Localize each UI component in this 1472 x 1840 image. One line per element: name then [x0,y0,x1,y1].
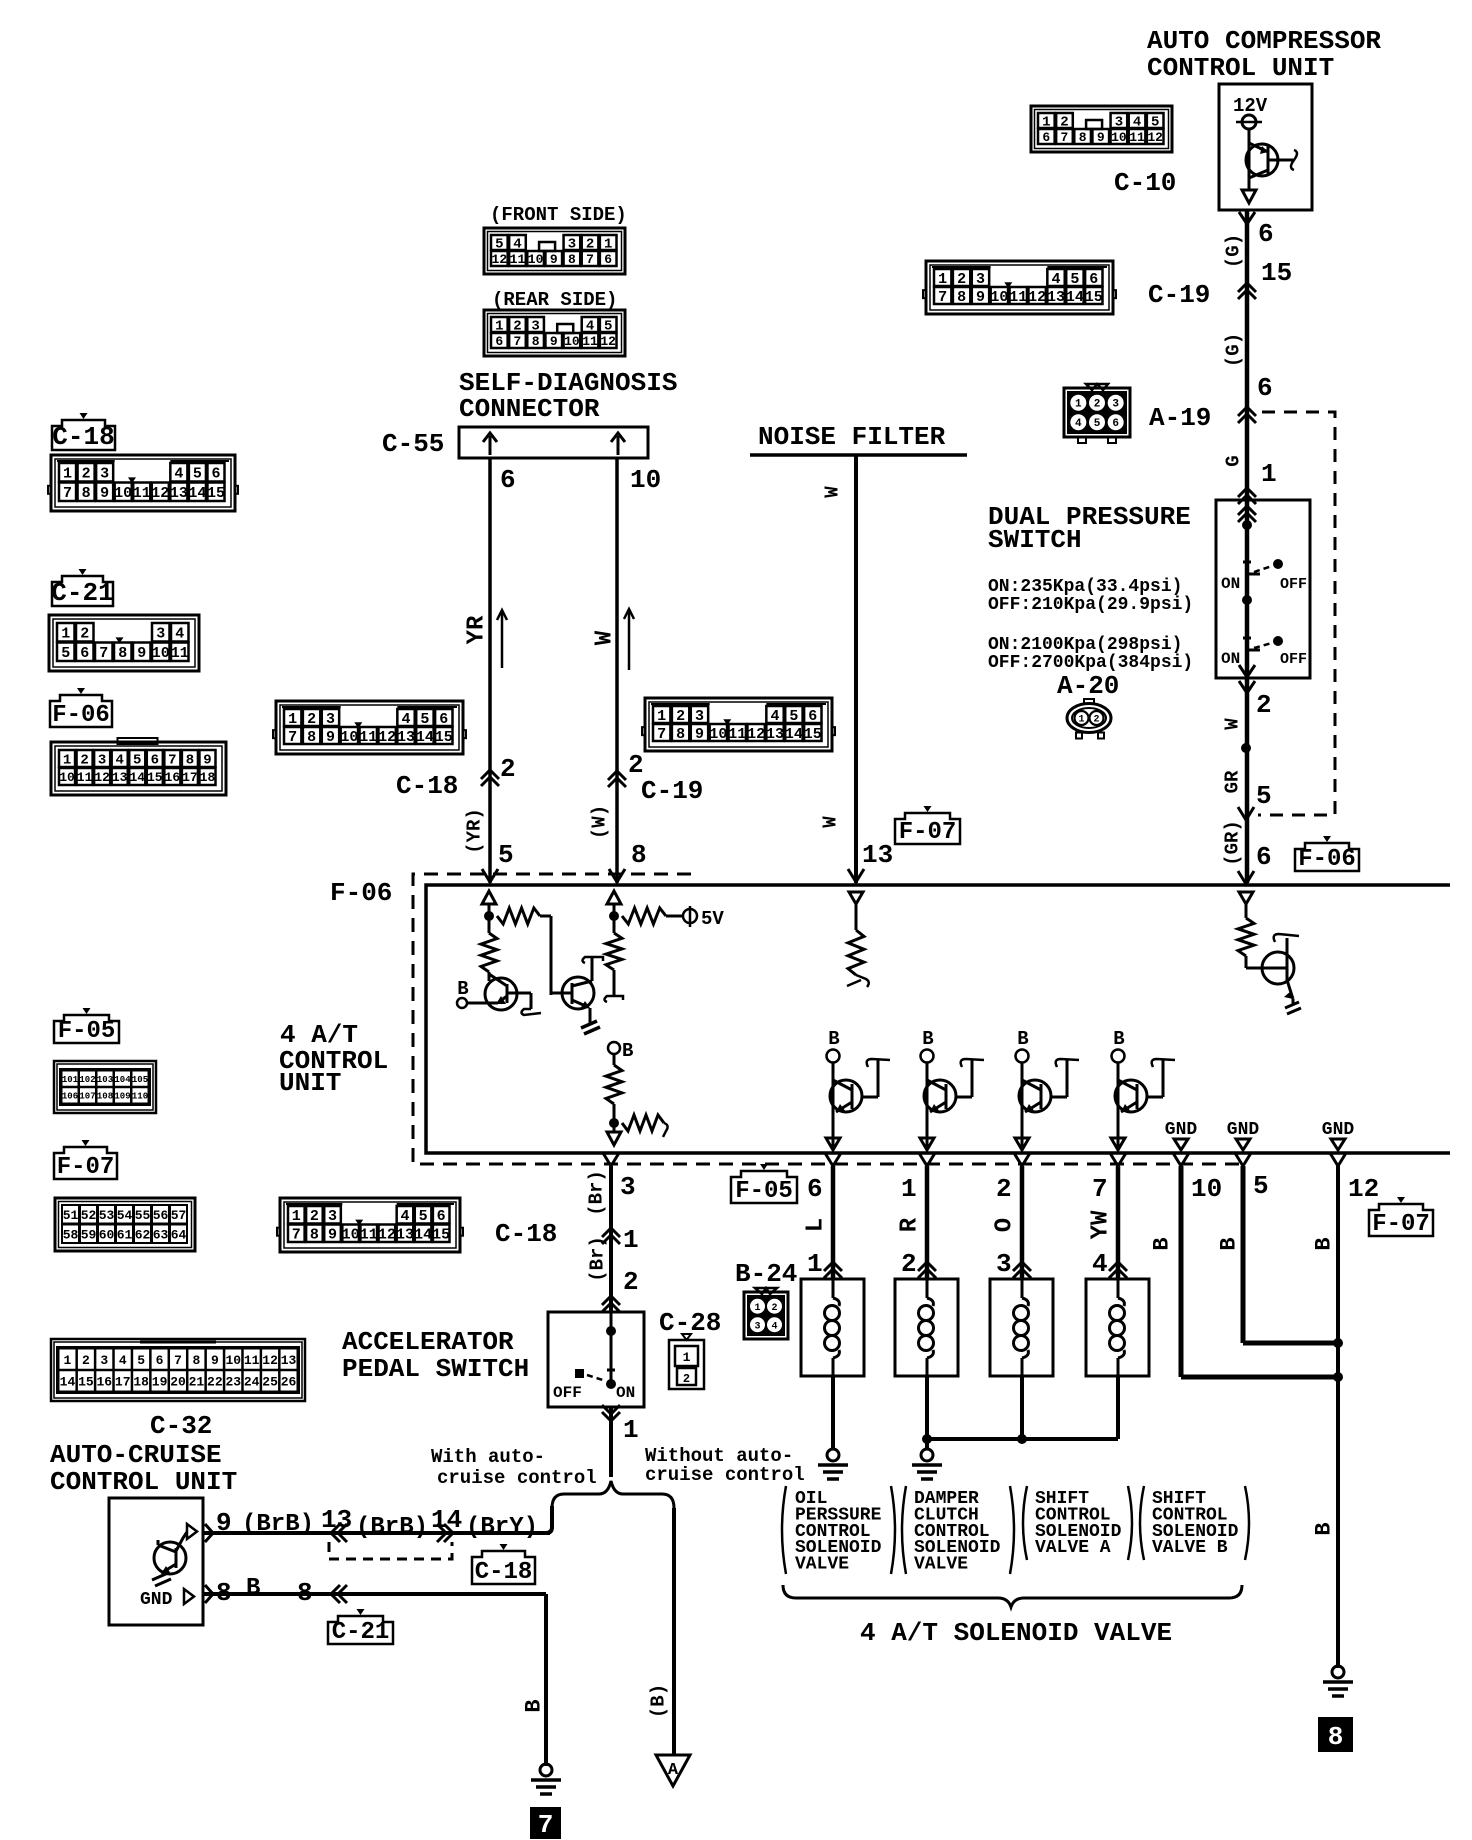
cruise port 1 [187,1524,197,1539]
svg-text:(W): (W) [589,805,611,839]
svg-text:ON:235Kpa(33.4psi): ON:235Kpa(33.4psi) [988,577,1182,597]
svg-text:10: 10 [1111,130,1127,145]
connector C-28 [669,1340,704,1389]
solenoid valve damper clutch [895,1279,958,1376]
svg-text:10: 10 [340,729,358,746]
svg-text:YW: YW [1087,1210,1114,1239]
svg-text:4: 4 [1052,271,1061,288]
svg-text:6: 6 [808,708,817,725]
svg-text:(GR): (GR) [1222,820,1244,866]
svg-text:102: 102 [79,1075,95,1085]
resistor R4 vert [606,933,622,970]
solenoid valve oil pressure [801,1279,864,1376]
svg-text:105: 105 [132,1075,148,1085]
svg-text:55: 55 [135,1208,151,1223]
crossing YW [1109,1262,1127,1271]
svg-text:GR: GR [1222,770,1244,793]
wire L down [831,1166,836,1279]
svg-text:12: 12 [94,770,110,785]
svg-text:12: 12 [492,252,508,267]
svg-text:8: 8 [1328,1722,1344,1752]
svg-text:12: 12 [262,1353,278,1368]
svg-text:10: 10 [630,465,661,495]
svg-text:GND: GND [1165,1120,1198,1140]
svg-text:10: 10 [342,1227,360,1244]
connector REAR SIDE [484,310,625,356]
svg-text:6: 6 [1089,271,1098,288]
wire O down [1020,1166,1025,1279]
svg-text:B: B [1017,1028,1028,1050]
svg-text:ON: ON [1221,575,1240,593]
svg-text:11: 11 [1009,289,1027,306]
svg-text:5: 5 [1253,1171,1269,1201]
svg-text:12: 12 [151,485,169,502]
svg-text:B: B [622,1040,633,1062]
svg-text:2: 2 [623,1267,639,1297]
svg-text:(BrY): (BrY) [466,1514,538,1541]
svg-text:W: W [822,486,844,498]
C-21 ref box cruise [328,1616,393,1644]
junction Y below box [1239,212,1255,224]
pedal switch box [548,1312,644,1407]
bus exit Y L [825,1153,841,1166]
chevron inside box top [1238,506,1256,515]
svg-text:109: 109 [114,1092,130,1102]
svg-text:4: 4 [771,1321,777,1332]
svg-text:A-19: A-19 [1149,403,1211,433]
svg-text:6: 6 [1258,219,1274,249]
svg-text:8: 8 [297,1578,313,1608]
svg-text:2: 2 [80,753,88,769]
svg-text:9: 9 [976,289,985,306]
svg-text:C-19: C-19 [641,776,703,806]
svg-text:B: B [1150,1237,1175,1250]
svg-text:OFF: OFF [553,1384,582,1402]
svg-text:5: 5 [133,753,141,769]
crossing 1 [602,1228,620,1237]
svg-text:B: B [1217,1237,1242,1250]
resistor R1 horiz [497,908,540,924]
svg-text:(B): (B) [648,1684,670,1718]
svg-text:A-20: A-20 [1057,671,1119,701]
svg-text:6: 6 [604,252,612,267]
svg-text:12: 12 [1147,130,1163,145]
transistor Q1 compressor [1246,144,1278,176]
solenoid join wire [927,1437,1118,1441]
svg-text:5: 5 [498,840,514,870]
svg-text:10: 10 [709,726,727,743]
svg-text:1: 1 [61,626,70,643]
svg-text:3: 3 [620,1172,636,1202]
svg-text:6: 6 [1042,130,1050,145]
svg-text:YR: YR [463,615,490,644]
bus entry Y GR [1238,871,1254,884]
svg-text:8: 8 [82,485,91,502]
svg-text:2: 2 [1093,715,1099,726]
svg-text:F-07: F-07 [899,819,957,846]
svg-text:14: 14 [129,770,145,785]
svg-text:12: 12 [378,1227,396,1244]
svg-text:4: 4 [1092,1249,1108,1279]
svg-text:2: 2 [1094,399,1101,411]
connector B-24 [744,1292,788,1339]
C-55 arrow 1 [489,436,492,455]
bus exit Y O [1014,1153,1030,1166]
svg-text:15: 15 [804,726,822,743]
svg-text:F-05: F-05 [735,1178,793,1205]
svg-text:4: 4 [174,466,183,483]
svg-text:18: 18 [200,770,216,785]
svg-text:63: 63 [153,1227,169,1242]
svg-text:26: 26 [281,1375,297,1390]
junction dot [1242,520,1252,530]
svg-text:F-06: F-06 [52,702,110,729]
svg-text:8: 8 [186,753,194,769]
svg-text:14: 14 [416,729,434,746]
svg-text:C-10: C-10 [1114,168,1176,198]
ground wire B [540,1764,552,1776]
bus exit Y Br [603,1153,619,1166]
svg-text:1: 1 [288,711,297,728]
svg-text:OFF: OFF [1280,651,1307,668]
svg-text:14: 14 [785,726,803,743]
svg-text:W: W [820,816,842,828]
svg-text:3: 3 [100,1353,108,1368]
svg-text:(BrB): (BrB) [356,1514,428,1541]
svg-text:12: 12 [1028,289,1046,306]
C-18 ref box top-left [52,420,115,450]
svg-text:9: 9 [203,753,211,769]
input arrow YR [482,891,496,904]
svg-text:5: 5 [137,1353,145,1368]
svg-text:6: 6 [80,645,89,662]
svg-text:11: 11 [77,770,93,785]
auto compressor control unit box [1219,84,1312,210]
svg-text:8: 8 [532,334,540,349]
control unit dashed border [413,874,1243,1164]
svg-text:CONTROL UNIT: CONTROL UNIT [50,1467,237,1497]
svg-text:3: 3 [976,271,985,288]
svg-text:7: 7 [168,753,176,769]
dashed link A-19 to GR [1258,412,1335,815]
svg-text:6: 6 [1256,842,1272,872]
svg-text:13: 13 [1047,289,1065,306]
svg-text:7: 7 [938,289,947,306]
svg-text:F-07: F-07 [1372,1211,1430,1238]
svg-text:53: 53 [99,1208,115,1223]
svg-text:61: 61 [117,1227,133,1242]
switch 1 pole [1246,560,1249,576]
dual pressure switch box [1216,500,1310,678]
svg-text:6: 6 [151,753,159,769]
svg-text:1: 1 [1075,399,1082,411]
svg-text:C-18: C-18 [52,422,114,452]
svg-text:10: 10 [990,289,1008,306]
resistor R8 vert [1245,904,1248,918]
svg-text:4: 4 [771,708,780,725]
svg-text:F-06: F-06 [330,878,392,908]
svg-text:R: R [896,1217,923,1232]
R4 end hook [613,970,616,996]
svg-text:5: 5 [1094,418,1101,430]
svg-text:6: 6 [807,1174,823,1204]
wire Br down [609,1166,613,1312]
flow arrow 1 [501,612,504,668]
svg-text:1: 1 [1261,459,1277,489]
svg-text:3: 3 [754,1321,760,1332]
svg-text:7: 7 [292,1227,301,1244]
svg-text:14: 14 [1066,289,1084,306]
svg-text:3: 3 [328,1208,337,1225]
svg-text:7: 7 [99,645,108,662]
svg-text:9: 9 [695,726,704,743]
svg-text:W: W [1222,718,1244,730]
svg-text:NOISE FILTER: NOISE FILTER [758,422,946,452]
svg-text:C-32: C-32 [150,1411,212,1441]
svg-text:17: 17 [182,770,198,785]
svg-text:56: 56 [153,1208,169,1223]
solenoid name block DAMPER [902,1486,906,1574]
svg-text:B: B [522,1699,547,1712]
svg-text:6: 6 [156,1353,164,1368]
connector crossing pin1 [1238,488,1256,497]
svg-text:GND: GND [1322,1120,1355,1140]
svg-text:C-55: C-55 [382,429,444,459]
connector A-19 [1064,388,1130,437]
svg-text:(FRONT SIDE): (FRONT SIDE) [490,204,627,226]
svg-text:108: 108 [97,1092,113,1102]
svg-text:ACCELERATOR: ACCELERATOR [342,1327,514,1357]
svg-text:7: 7 [586,252,594,267]
transistor Q2 [485,978,517,1010]
C-18 ref box cruise [472,1551,535,1584]
svg-text:1: 1 [657,708,666,725]
switch 2 pole [1246,637,1249,652]
crossing C-19 mid [608,771,626,780]
svg-text:7: 7 [514,334,522,349]
B terminal mid [608,1042,620,1054]
F-07 ref box right-mid [1369,1204,1433,1236]
svg-text:12: 12 [378,729,396,746]
svg-text:10: 10 [114,485,132,502]
svg-text:L: L [802,1218,829,1232]
svg-text:7: 7 [657,726,666,743]
svg-text:3: 3 [156,626,165,643]
svg-text:15: 15 [1085,289,1103,306]
svg-text:VALVE: VALVE [795,1555,849,1575]
svg-text:62: 62 [135,1227,151,1242]
svg-text:3: 3 [695,708,704,725]
svg-text:B: B [1113,1028,1124,1050]
resistor R5 vert [613,1054,616,1065]
svg-text:54: 54 [117,1208,133,1223]
svg-text:12: 12 [747,726,765,743]
B wire 5 [1235,1153,1251,1166]
resistor R2 vert [481,933,497,972]
input arrow W [607,891,621,904]
svg-text:15: 15 [207,485,225,502]
svg-text:11: 11 [510,252,526,267]
dashed jumper [329,1542,452,1559]
5V terminal [683,909,697,923]
svg-text:4: 4 [115,753,123,769]
connector C-19 mid [645,698,832,751]
svg-text:GND: GND [140,1590,173,1610]
svg-text:9: 9 [211,1353,219,1368]
svg-text:7: 7 [1061,130,1069,145]
svg-text:101: 101 [62,1075,79,1085]
svg-text:7: 7 [288,729,297,746]
svg-text:B: B [1312,1237,1337,1250]
svg-text:2: 2 [901,1249,917,1279]
F-07 ref box [895,813,960,844]
wire A up corner [546,1506,552,1533]
svg-text:(REAR SIDE): (REAR SIDE) [492,289,617,311]
svg-text:16: 16 [97,1375,113,1390]
crossing 13 [331,1524,340,1542]
switch 2 pole ticks [1243,637,1251,640]
svg-text:C-21: C-21 [51,578,113,608]
svg-text:5: 5 [1256,781,1272,811]
solenoid name block SHIFT [1140,1486,1144,1560]
svg-text:ON:2100Kpa(298psi): ON:2100Kpa(298psi) [988,635,1182,655]
svg-text:7: 7 [174,1353,182,1368]
svg-text:23: 23 [225,1375,241,1390]
crossing O [1013,1262,1031,1271]
svg-text:1: 1 [64,1353,72,1368]
svg-text:9: 9 [326,729,335,746]
svg-text:9: 9 [1097,130,1105,145]
svg-text:11: 11 [1129,130,1145,145]
compressor output arrow [1242,190,1256,203]
svg-text:ON: ON [1221,650,1240,668]
svg-text:CONTROL UNIT: CONTROL UNIT [1147,53,1334,83]
B wire 12 [1330,1153,1346,1166]
svg-text:VALVE B: VALVE B [1152,1538,1228,1558]
solenoid valve shift B [1086,1279,1149,1376]
svg-text:5: 5 [1070,271,1079,288]
resistor R6 horiz [622,1115,664,1131]
svg-text:8: 8 [307,729,316,746]
crossing below pedal [602,1412,620,1421]
svg-text:1: 1 [807,1249,823,1279]
connector C-18 mid [276,701,463,754]
svg-text:13: 13 [170,485,188,502]
svg-text:11: 11 [360,1227,378,1244]
triangle A [656,1755,690,1786]
svg-text:9: 9 [550,252,558,267]
F-07 ref box left [54,1147,117,1179]
svg-text:4: 4 [400,1208,409,1225]
svg-text:6: 6 [439,711,448,728]
wire 8 B [203,1592,546,1596]
connector F-07 [55,1198,195,1251]
svg-text:G: G [1223,455,1245,466]
svg-text:7: 7 [1092,1174,1108,1204]
input arrow GR [1239,892,1253,904]
svg-text:1: 1 [938,271,947,288]
bus entry Y W [609,869,625,882]
svg-text:B: B [828,1028,839,1050]
svg-text:5: 5 [420,711,429,728]
svg-text:11: 11 [359,729,377,746]
svg-text:3: 3 [996,1249,1012,1279]
connector A-20 [1067,704,1111,733]
page ref 7 [530,1807,561,1839]
bus entry Y noise [848,869,864,882]
connector F-05 [54,1061,156,1113]
svg-text:14: 14 [431,1505,462,1535]
svg-text:15: 15 [1261,258,1292,288]
svg-text:13: 13 [397,729,415,746]
svg-text:8: 8 [1079,130,1087,145]
svg-text:13: 13 [281,1353,297,1368]
svg-text:8: 8 [193,1353,201,1368]
pedal switch contacts [576,1370,583,1377]
solenoid 1 ground wire [831,1376,835,1449]
svg-text:10: 10 [59,770,75,785]
12V terminal circle [1242,115,1256,129]
svg-text:1: 1 [623,1415,639,1445]
svg-text:4 A/T SOLENOID VALVE: 4 A/T SOLENOID VALVE [860,1618,1172,1648]
svg-text:9: 9 [137,645,146,662]
svg-text:106: 106 [62,1092,78,1102]
svg-text:14: 14 [414,1227,432,1244]
svg-text:103: 103 [97,1075,113,1085]
svg-text:17: 17 [115,1375,131,1390]
svg-text:3: 3 [98,753,106,769]
svg-text:4: 4 [402,711,411,728]
svg-text:6: 6 [211,466,220,483]
svg-text:5V: 5V [701,908,724,930]
C-55 arrow 2 [617,436,620,455]
svg-text:OFF:2700Kpa(384psi): OFF:2700Kpa(384psi) [988,653,1193,673]
solenoid 3 wire [1020,1376,1024,1439]
C-21 ref box [52,576,113,606]
svg-text:1: 1 [63,753,71,769]
svg-text:104: 104 [114,1075,131,1085]
svg-text:8: 8 [216,1578,232,1608]
svg-text:16: 16 [165,770,181,785]
svg-text:22: 22 [207,1375,223,1390]
transistor Q9 cruise [154,1542,186,1574]
resistor R3 horiz [622,908,666,924]
svg-text:4: 4 [175,626,184,643]
svg-text:13: 13 [862,840,893,870]
svg-text:9: 9 [100,485,109,502]
svg-text:C-18: C-18 [396,771,458,801]
svg-text:1: 1 [63,466,72,483]
svg-text:11: 11 [171,645,189,662]
pedal wire out [609,1407,613,1477]
connector crossing C-19 pin15 [1238,283,1256,292]
bus exit Y YW [1110,1153,1126,1166]
connector C-19 top [926,261,1113,314]
svg-text:UNIT: UNIT [279,1068,341,1098]
svg-text:7: 7 [538,1810,554,1840]
svg-text:C-21: C-21 [332,1619,390,1646]
solenoid 4 wire [1116,1376,1120,1439]
svg-text:PEDAL SWITCH: PEDAL SWITCH [342,1354,529,1384]
svg-text:OFF:210Kpa(29.9psi): OFF:210Kpa(29.9psi) [988,595,1193,615]
svg-text:With auto-: With auto- [431,1446,545,1468]
wire G from compressor [1245,210,1250,883]
svg-text:B: B [922,1028,933,1050]
solenoid name block SHIFT [1023,1486,1027,1560]
svg-text:9: 9 [328,1227,337,1244]
svg-text:1: 1 [754,1303,760,1314]
svg-text:2: 2 [307,711,316,728]
